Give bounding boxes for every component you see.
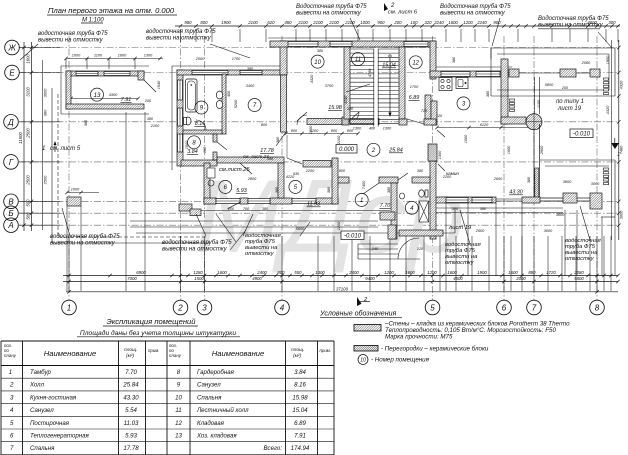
- room 8 partition right: [213, 134, 217, 142]
- svg-text:Наименование: Наименование: [44, 349, 96, 358]
- wall room 7 bottom / room 6 top: [217, 157, 284, 163]
- svg-text:900: 900: [377, 20, 385, 25]
- room 1 label: [355, 193, 368, 206]
- svg-text:вывести на отмостку: вывести на отмостку: [38, 37, 104, 43]
- svg-text:4500: 4500: [453, 276, 463, 281]
- svg-text:см. лист 6: см. лист 6: [388, 10, 418, 16]
- svg-text:17.78: 17.78: [123, 445, 139, 452]
- svg-text:800: 800: [331, 129, 338, 133]
- svg-text:10: 10: [360, 358, 366, 364]
- svg-text:2000: 2000: [195, 57, 205, 61]
- svg-text:1: 1: [617, 152, 620, 158]
- svg-text:15.04: 15.04: [292, 407, 308, 414]
- svg-text:200: 200: [144, 99, 152, 103]
- svg-text:прим.: прим.: [320, 348, 332, 353]
- svg-text:3600: 3600: [42, 88, 47, 97]
- svg-text:Лестничный холл: Лестничный холл: [196, 407, 249, 414]
- bottom steps lines: [130, 220, 378, 222]
- svg-text:7000: 7000: [127, 276, 137, 281]
- svg-text:1200: 1200: [384, 270, 394, 275]
- room 3 label: [457, 97, 470, 110]
- svg-text:2900: 2900: [540, 145, 544, 155]
- kitchen right wall: [501, 59, 508, 124]
- svg-text:Водосточная труба Ф75: Водосточная труба Ф75: [440, 4, 511, 10]
- svg-text:2080: 2080: [573, 270, 584, 275]
- svg-text:5.54: 5.54: [125, 407, 137, 414]
- stairs break line: [346, 84, 370, 92]
- svg-text:3.84: 3.84: [294, 369, 306, 376]
- svg-text:1600: 1600: [185, 140, 189, 149]
- svg-text:3800: 3800: [556, 213, 565, 217]
- svg-text:1600: 1600: [26, 54, 31, 64]
- svg-text:2600: 2600: [493, 177, 503, 181]
- svg-text:плану: плану: [169, 353, 182, 358]
- svg-text:вывести на отмостку: вывести на отмостку: [296, 10, 362, 16]
- svg-text:водосточная труба Ф75: водосточная труба Ф75: [38, 31, 108, 37]
- round column: [526, 114, 542, 130]
- svg-text:37100: 37100: [336, 286, 349, 291]
- svg-text:200: 200: [393, 20, 402, 25]
- svg-text:900: 900: [493, 20, 501, 25]
- svg-text:1: 1: [9, 369, 12, 376]
- svg-text:(м²): (м²): [293, 353, 301, 359]
- svg-text:4220: 4220: [286, 175, 295, 179]
- svg-text:1000: 1000: [360, 20, 370, 25]
- room 5 top wall: [303, 161, 331, 168]
- entry piers: [380, 212, 395, 220]
- svg-text:А: А: [7, 221, 13, 230]
- left inner dim chain: [42, 60, 44, 230]
- svg-text:380: 380: [84, 119, 88, 126]
- door swing room 13: [144, 80, 156, 92]
- wc room 4: [419, 190, 425, 197]
- svg-text:4900: 4900: [252, 276, 262, 281]
- svg-text:Г: Г: [9, 158, 14, 167]
- right dimension chain: [611, 40, 613, 240]
- svg-text:380: 380: [147, 117, 154, 121]
- main body left wall: [177, 70, 183, 166]
- svg-text:240: 240: [371, 247, 379, 251]
- svg-text:Д: Д: [7, 118, 14, 127]
- TABLE: [77, 317, 240, 337]
- svg-text:плану: плану: [4, 353, 17, 358]
- corner piers left of room 6: [179, 204, 192, 211]
- section arrow 1 right: [611, 143, 619, 149]
- svg-text:1200: 1200: [463, 20, 473, 25]
- svg-text:1280: 1280: [193, 270, 203, 275]
- svg-text:2100: 2100: [312, 20, 323, 25]
- svg-text:Кладовая: Кладовая: [197, 420, 225, 427]
- svg-text:400: 400: [369, 127, 376, 131]
- svg-text:вывести на отмостку: вывести на отмостку: [50, 240, 116, 246]
- room 13 label: [91, 88, 104, 101]
- svg-text:2400: 2400: [256, 270, 267, 275]
- svg-text:см. лист 5: см. лист 5: [50, 146, 81, 152]
- svg-text:Экспликация помещений: Экспликация помещений: [107, 317, 197, 326]
- svg-text:6: 6: [502, 304, 507, 313]
- top wall rooms 9-7: [177, 70, 280, 75]
- entrance top wall: [337, 177, 349, 183]
- pier dim 1000: [67, 192, 99, 194]
- svg-text:1200: 1200: [337, 221, 341, 230]
- svg-text:1600: 1600: [217, 270, 227, 275]
- svg-text:вывести на отмостку: вывести на отмостку: [146, 35, 212, 41]
- svg-text:3700: 3700: [325, 84, 334, 88]
- pier on axis 1: [67, 197, 81, 206]
- svg-text:2: 2: [390, 3, 395, 9]
- svg-text:1300: 1300: [383, 127, 392, 131]
- svg-text:1300: 1300: [144, 54, 153, 58]
- terrain extension lines: [66, 206, 68, 291]
- svg-text:М 1:100: М 1:100: [82, 18, 104, 24]
- leader lines downpipes: [20, 44, 38, 60]
- svg-text:1300: 1300: [353, 127, 362, 131]
- svg-text:4320: 4320: [310, 74, 314, 83]
- svg-text:380: 380: [486, 90, 490, 97]
- svg-text:7: 7: [10, 445, 14, 452]
- svg-text:11.03: 11.03: [124, 420, 139, 427]
- porch steps at entrance: [358, 243, 398, 245]
- svg-text:8.16: 8.16: [294, 382, 306, 389]
- parapet below column: [533, 129, 535, 198]
- svg-text:9400: 9400: [365, 276, 375, 281]
- svg-text:1720: 1720: [546, 270, 556, 275]
- svg-text:3100: 3100: [26, 87, 31, 97]
- svg-text:2080: 2080: [581, 61, 591, 65]
- room 5 right wall / hall left: [332, 158, 338, 204]
- room 6 label: [219, 180, 232, 193]
- room 12 label: [409, 56, 422, 69]
- bottom-right terrace piers: [563, 193, 577, 203]
- svg-text:лист 19: лист 19: [557, 106, 582, 112]
- svg-text:480: 480: [284, 20, 292, 25]
- svg-text:2: 2: [177, 304, 183, 313]
- kitchen bottom wall: [430, 197, 496, 203]
- bottom axis circles: [62, 300, 605, 315]
- svg-text:2100: 2100: [150, 124, 160, 128]
- elevation -0.010 right: [570, 129, 593, 138]
- svg-text:380: 380: [327, 186, 331, 193]
- svg-text:11: 11: [175, 407, 181, 414]
- svg-text:1500: 1500: [194, 276, 204, 281]
- svg-text:620: 620: [267, 20, 275, 25]
- svg-text:500: 500: [26, 199, 31, 207]
- svg-text:800: 800: [200, 20, 208, 25]
- room 6 left wall: [204, 163, 210, 204]
- svg-text:800: 800: [291, 129, 298, 133]
- svg-text:1000: 1000: [464, 134, 468, 143]
- room 12 left wall: [399, 47, 405, 119]
- svg-text:План первого этажа на отм. 0.0: План первого этажа на отм. 0.000: [48, 6, 175, 15]
- kitchen top wall: [430, 71, 508, 77]
- svg-text:0.000: 0.000: [339, 147, 355, 153]
- svg-text:13: 13: [175, 433, 182, 440]
- svg-text:2200: 2200: [442, 175, 452, 179]
- svg-text:лист 19: лист 19: [448, 225, 472, 231]
- svg-text:Площади даны без учета толщины: Площади даны без учета толщины штукатурк…: [80, 329, 236, 337]
- railing left of column: [510, 99, 515, 101]
- top-right terrace outline: [491, 47, 615, 49]
- svg-text:12: 12: [412, 61, 419, 67]
- svg-text:700: 700: [243, 207, 250, 211]
- kitchen/entrance divider wall: [430, 161, 436, 239]
- svg-text:11500: 11500: [18, 132, 23, 144]
- svg-text:Теплогенераторная: Теплогенераторная: [30, 433, 89, 440]
- right wall of stair block: [430, 41, 436, 79]
- vertical connector wall x280: [280, 41, 287, 75]
- svg-text:отмостку: отмостку: [245, 251, 275, 257]
- svg-text:Е: Е: [9, 69, 15, 78]
- terrace railing rects: [604, 78, 609, 80]
- svg-text:4320: 4320: [619, 80, 624, 89]
- basin room 4: [400, 193, 405, 199]
- svg-text:2: 2: [9, 382, 14, 389]
- svg-text:6: 6: [10, 433, 14, 440]
- svg-text:Условные обозначения: Условные обозначения: [319, 310, 397, 318]
- svg-text:11: 11: [355, 57, 361, 63]
- left axis circles: [4, 40, 20, 232]
- svg-text:водосточная труба Ф75: водосточная труба Ф75: [146, 29, 216, 35]
- svg-text:Ж: Ж: [7, 44, 16, 53]
- svg-text:7: 7: [532, 304, 537, 313]
- svg-text:380: 380: [276, 136, 280, 143]
- svg-text:1700: 1700: [410, 85, 419, 89]
- stair bottom wall: [350, 119, 379, 125]
- svg-text:Водосточная труба Ф75: Водосточная труба Ф75: [538, 16, 609, 22]
- terrace railing rects bottom: [604, 168, 609, 170]
- svg-text:4300: 4300: [109, 93, 118, 97]
- svg-text:980: 980: [184, 20, 192, 25]
- svg-text:4: 4: [10, 407, 14, 414]
- room 10 label: [311, 55, 324, 68]
- title block: [47, 6, 177, 24]
- svg-text:Холл: Холл: [29, 382, 45, 389]
- room 13 wing walls: [66, 71, 144, 76]
- svg-text:15.98: 15.98: [292, 394, 308, 401]
- svg-text:380: 380: [452, 56, 456, 63]
- svg-text:Водосточная труба Ф75: Водосточная труба Ф75: [296, 4, 367, 10]
- svg-text:380: 380: [42, 109, 47, 116]
- svg-text:площ.: площ.: [124, 348, 137, 353]
- svg-text:1600: 1600: [507, 145, 511, 154]
- room 2 label: [367, 143, 380, 156]
- svg-text:Санузел: Санузел: [30, 407, 54, 414]
- boiler room 6 equip: [207, 168, 215, 178]
- blind area top lines: [268, 37, 436, 39]
- svg-text:2100: 2100: [328, 20, 339, 25]
- svg-text:5800: 5800: [574, 276, 584, 281]
- svg-text:200: 200: [561, 86, 569, 90]
- svg-text:12: 12: [175, 420, 182, 427]
- svg-text:Тамбур: Тамбур: [30, 369, 51, 376]
- svg-text:10: 10: [314, 60, 321, 66]
- wall above fireplace: [431, 101, 437, 125]
- svg-text:2100: 2100: [247, 20, 258, 25]
- top dimension chain: [175, 25, 620, 27]
- svg-text:380: 380: [267, 157, 274, 161]
- svg-text:4750: 4750: [368, 68, 372, 77]
- svg-text:1200: 1200: [427, 270, 437, 275]
- terrace edge above column: [534, 77, 536, 114]
- svg-text:см.лист.25: см.лист.25: [219, 167, 250, 173]
- svg-text:3400: 3400: [246, 84, 255, 88]
- bottom-right terrace outline: [540, 159, 615, 161]
- wall to column: [501, 117, 526, 124]
- svg-text:вывести на отмостку: вывести на отмостку: [162, 246, 228, 252]
- svg-text:4130: 4130: [344, 95, 348, 104]
- svg-text:водосточная труба Ф75: водосточная труба Ф75: [162, 240, 232, 246]
- svg-text:380: 380: [387, 186, 391, 193]
- door swing room 5: [287, 158, 302, 164]
- svg-text:2500: 2500: [42, 175, 47, 185]
- wall between rooms 6 and 5: [278, 163, 284, 198]
- svg-text:1700: 1700: [232, 57, 241, 61]
- left dimension chain: [31, 42, 33, 231]
- corridor piers below room 12: [399, 119, 407, 125]
- svg-text:3000: 3000: [619, 210, 624, 219]
- bathroom 9 partition: [222, 74, 226, 134]
- svg-text:Всего:: Всего:: [263, 445, 282, 452]
- axis grid lines: [19, 36, 618, 300]
- svg-text:Б: Б: [8, 209, 13, 218]
- elevation 0.000: [336, 145, 357, 154]
- svg-text:380: 380: [480, 207, 487, 211]
- svg-text:1: 1: [360, 198, 363, 204]
- svg-text:380: 380: [527, 176, 531, 183]
- kitchen dim line: [437, 127, 532, 129]
- door arcs: [297, 115, 307, 125]
- svg-text:120: 120: [417, 247, 424, 251]
- svg-text:800: 800: [277, 270, 285, 275]
- svg-text:10: 10: [175, 394, 182, 401]
- room 7 label: [248, 99, 261, 112]
- svg-text:25.84: 25.84: [122, 382, 139, 389]
- kitchen stove: [439, 78, 452, 91]
- svg-text:1000: 1000: [71, 188, 80, 192]
- svg-text:100: 100: [410, 20, 418, 25]
- svg-text:3000: 3000: [591, 182, 600, 186]
- svg-text:7.70: 7.70: [125, 369, 137, 376]
- svg-text:120: 120: [436, 114, 443, 118]
- svg-text:Спальня: Спальня: [30, 445, 55, 452]
- svg-text:7.91: 7.91: [294, 433, 306, 440]
- svg-text:по типу 1: по типу 1: [556, 99, 584, 105]
- svg-text:320: 320: [424, 20, 432, 25]
- bathtub room 9: [186, 79, 198, 112]
- svg-text:площ.: площ.: [291, 348, 304, 353]
- svg-text:2600: 2600: [475, 229, 485, 233]
- svg-text:6120: 6120: [480, 123, 489, 127]
- svg-text:2800: 2800: [247, 177, 257, 181]
- svg-text:2100: 2100: [344, 20, 355, 25]
- svg-text:160: 160: [203, 146, 207, 153]
- svg-text:1300: 1300: [438, 150, 442, 159]
- bottom dimension chain row2: [63, 281, 618, 283]
- room 5 label: [289, 180, 302, 193]
- svg-text:1000: 1000: [72, 54, 81, 58]
- hall dim line: [286, 133, 358, 135]
- svg-text:Марка прочности: М75: Марка прочности: М75: [385, 334, 453, 341]
- bottom dimension chain row1: [63, 275, 618, 277]
- svg-text:300: 300: [608, 20, 616, 25]
- wc room 9: [185, 117, 191, 125]
- step lines below kitchen: [430, 207, 563, 209]
- blind area lines around room 13: [61, 65, 149, 67]
- svg-text:5: 5: [430, 304, 435, 313]
- svg-text:1100: 1100: [94, 54, 103, 58]
- door swing room 6 exit: [228, 202, 241, 209]
- svg-text:- Перегородки – керамические б: - Перегородки – керамические блоки: [381, 346, 489, 353]
- room 11 label: [352, 53, 365, 66]
- basins room 9: [216, 91, 222, 99]
- svg-text:Гардеробная: Гардеробная: [197, 369, 235, 376]
- svg-text:380: 380: [317, 49, 324, 53]
- extension lines below kitchen: [445, 203, 447, 291]
- svg-text:4320: 4320: [605, 105, 610, 114]
- svg-text:8: 8: [595, 304, 600, 313]
- stairs arrow: [389, 57, 391, 113]
- svg-text:Кухня-гостиная: Кухня-гостиная: [30, 394, 77, 401]
- svg-text:2: 2: [371, 148, 376, 154]
- svg-text:5.93: 5.93: [125, 433, 137, 440]
- svg-text:1600: 1600: [508, 270, 518, 275]
- svg-text:2500: 2500: [26, 128, 31, 139]
- shower room 4: [419, 201, 429, 222]
- svg-text:7400: 7400: [362, 180, 366, 189]
- svg-text:-0.010: -0.010: [573, 131, 591, 137]
- svg-text:3000: 3000: [544, 229, 553, 233]
- svg-text:6.89: 6.89: [294, 420, 306, 427]
- svg-text:174.94: 174.94: [291, 445, 310, 452]
- svg-text:380: 380: [262, 207, 269, 211]
- svg-text:2240: 2240: [476, 20, 487, 25]
- svg-text:720: 720: [421, 109, 428, 113]
- wall room 10 / stairs: [344, 47, 350, 119]
- room 13 inner dim line: [71, 98, 138, 100]
- svg-text:2400: 2400: [348, 270, 359, 275]
- svg-text:вывести на отмостку: вывести на отмостку: [440, 10, 506, 16]
- svg-text:380: 380: [247, 67, 254, 71]
- svg-text:1100: 1100: [537, 99, 541, 108]
- svg-text:- Номер помещения: - Номер помещения: [371, 357, 430, 364]
- svg-text:2200: 2200: [305, 169, 315, 173]
- svg-text:500: 500: [26, 212, 31, 220]
- svg-text:2500: 2500: [26, 175, 31, 186]
- svg-text:380: 380: [347, 107, 354, 111]
- svg-text:вывести на отмостку: вывести на отмостку: [538, 22, 604, 28]
- wall room 7 right: [281, 75, 287, 132]
- kitchen sink: [456, 78, 468, 89]
- svg-text:4: 4: [280, 304, 285, 313]
- svg-text:5800: 5800: [545, 83, 554, 87]
- svg-text:200: 200: [227, 207, 235, 211]
- svg-text:1300: 1300: [315, 270, 325, 275]
- svg-text:3: 3: [202, 304, 207, 313]
- svg-text:800: 800: [339, 169, 346, 173]
- svg-text:5: 5: [10, 420, 14, 427]
- svg-text:1600: 1600: [118, 54, 127, 58]
- elevation -0.010 center: [341, 231, 364, 240]
- svg-text:1600: 1600: [448, 20, 458, 25]
- svg-text:Санузел: Санузел: [197, 382, 221, 389]
- svg-text:1940: 1940: [157, 80, 161, 89]
- svg-text:-0.010: -0.010: [344, 233, 362, 239]
- door swing entrance: [363, 183, 379, 194]
- svg-text:1900: 1900: [477, 270, 487, 275]
- svg-text:водосточная труба Ф75: водосточная труба Ф75: [50, 234, 120, 240]
- svg-text:Спальня: Спальня: [197, 394, 222, 401]
- svg-text:В: В: [8, 197, 14, 206]
